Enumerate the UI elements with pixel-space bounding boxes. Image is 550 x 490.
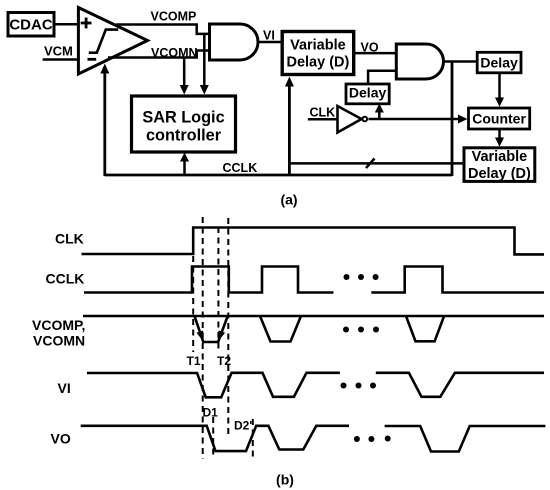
waveform VCOMP/VCOMN baseline [83,315,544,318]
wire branch to Variable Delay 2 input [289,162,464,165]
waveform VCOMP dip 2 [260,316,301,342]
wire Delay to Counter (arrow) [498,73,501,99]
wire up into Delay(mid) bottom (arrow) [378,112,381,120]
wire CCLK long feedback line [105,174,452,177]
waveform VCOMP dip 3 [406,316,444,341]
wire VCOMN: comparator to AND gate lower input [108,51,210,58]
wire VCOMP: comparator to AND gate upper input [116,25,210,34]
wire VCOMN drop to SAR Logic (arrow) [183,58,186,87]
ellipsis dots VO [354,436,391,443]
wire VI: AND gate to Variable Delay [258,41,281,44]
svg-text:VO: VO [51,431,71,447]
svg-text:CCLK: CCLK [223,161,258,175]
svg-text:T1: T1 [187,354,201,368]
svg-text:VI: VI [58,380,71,396]
Delay box U9 (middle) [346,84,389,104]
svg-text:Delay (D): Delay (D) [286,55,349,71]
waveform VO [81,426,546,452]
ellipsis dots CCLK [344,274,379,280]
svg-text:Delay (D): Delay (D) [468,166,531,182]
dashed marker line 3 [217,227,219,352]
wire CCLK up to comparator (arrow) [103,74,106,177]
wire VO: Variable Delay to AND gate 2 [354,52,397,55]
dashed marker line 5 [212,417,214,459]
wire CDAC to comparator + input [54,23,78,26]
ellipsis dots VCOMP [343,327,379,333]
inverter buffer U8 [338,106,362,133]
svg-text:CCLK: CCLK [46,271,85,287]
dashed marker line 6 [252,419,254,458]
bus slash mark [366,159,375,169]
svg-text:VCM: VCM [44,44,73,59]
waveform CLK [82,228,545,255]
wire CLK to inverter [308,118,337,121]
CDAC box [8,13,54,37]
Delay box U6 (top right) [477,52,521,73]
Variable Delay (D) box U4 [282,32,354,75]
svg-text:VI: VI [263,29,275,43]
svg-text:T2: T2 [217,354,231,368]
svg-text:(b): (b) [276,472,294,488]
AND gate U5 (second) [396,44,443,79]
arrow on VCOMP falling edge [197,331,204,342]
svg-text:Counter: Counter [472,110,526,126]
waveform VI [87,373,544,398]
wire VCOMP drop to SAR Logic (arrow) [203,34,206,86]
svg-text:Delay: Delay [349,85,387,101]
svg-text:controller: controller [146,127,222,145]
wire Delay(mid) top to AND gate 2 lower input [368,71,396,84]
dashed marker line 2 [202,217,204,459]
svg-text:VCOMN: VCOMN [33,333,85,349]
svg-text:(a): (a) [280,192,297,208]
dashed marker line 4 [227,218,229,437]
arrow on VCOMP rising edge [218,330,225,341]
waveform VCOMP dip 1 [195,316,228,342]
SAR Logic controller box U3 [132,96,236,152]
op-amp comparator U1 [78,8,147,75]
svg-text:D2': D2' [234,419,252,433]
svg-text:CLK: CLK [310,105,336,119]
wire Counter to Variable Delay 2 (arrow) [498,129,501,139]
wire CCLK up to Variable Delay 1 (arrow) [288,86,291,177]
AND gate U2 (first) [210,24,258,60]
comparator hysteresis step symbol [89,30,118,53]
waveform CCLK [84,267,544,293]
Counter box U7 [469,108,530,129]
ellipsis dots VI [341,383,377,389]
wire junction: gate 2 output down to CCLK line [451,62,454,177]
svg-text:Delay: Delay [480,54,518,70]
Variable Delay (D) box U10 (bottom right) [464,148,535,182]
svg-text:VCOMP: VCOMP [151,9,197,23]
wire CCLK up to SAR Logic (arrow) [183,161,186,176]
svg-text:Variable: Variable [472,149,528,165]
svg-text:VCOMP,: VCOMP, [32,317,85,333]
svg-text:D1: D1 [203,406,219,420]
wire inverter output to Counter (arrow) [369,118,460,121]
wire VCM to comparator - input [43,58,78,61]
svg-text:CDAC: CDAC [9,17,52,34]
svg-text:SAR Logic: SAR Logic [142,109,224,127]
comparator - input sign [88,58,97,61]
dashed marker line 1 (CLK edge) [192,256,194,352]
svg-text:CLK: CLK [55,231,84,247]
svg-text:Variable: Variable [290,38,346,54]
comparator + input sign [81,18,92,29]
wire AND gate 2 output to Delay [444,60,478,63]
